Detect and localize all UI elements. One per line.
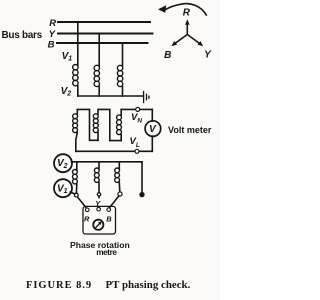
secondary coil 1 loops: [73, 114, 78, 133]
terminal b: [97, 193, 100, 196]
lower winding 2: [98, 162, 100, 169]
wire: V1 to terminal a: [70, 192, 74, 194]
terminal c: [118, 192, 122, 196]
voltmeter V1: [54, 179, 72, 197]
svg-text:Y: Y: [49, 29, 57, 40]
voltmeter V2: [54, 154, 72, 172]
meter face: [93, 220, 103, 230]
node VL terminal: [135, 149, 139, 153]
primary winding 3: [117, 65, 122, 86]
svg-text:Volt meter: Volt meter: [168, 125, 212, 135]
lower winding 1: [76, 162, 78, 170]
meter terminal R: [85, 208, 89, 212]
primary neutral bus wire: [78, 95, 143, 97]
wire: coil3 top to voltmeter: [121, 108, 152, 110]
meter terminal B: [107, 208, 111, 212]
primary winding 1 (V1 PT primary): [73, 65, 78, 86]
phase rotation meter box: [83, 206, 116, 234]
svg-text:FIGURE 8.9: FIGURE 8.9: [26, 280, 92, 291]
secondary hairpin 1: coil leg: [77, 109, 98, 140]
svg-text:Y: Y: [204, 50, 212, 61]
secondary hairpin 2: [98, 109, 121, 140]
node VN terminal: [136, 107, 140, 111]
rotation curved arrow: [166, 4, 207, 15]
svg-text:V1: V1: [62, 51, 73, 63]
wire: Y bus tap to primary coil 2: [98, 34, 100, 67]
meter terminal Y: [97, 207, 101, 211]
svg-text:VL: VL: [130, 136, 140, 149]
bus bar Y: [58, 33, 153, 35]
svg-text:V1: V1: [57, 183, 68, 195]
svg-text:R: R: [183, 8, 191, 19]
terminal d: [140, 192, 144, 196]
terminal a: [74, 193, 78, 197]
primary winding 2: [94, 65, 99, 86]
wire: down to voltmeter: [151, 109, 153, 121]
earth (ground) symbol: [144, 92, 149, 103]
bus bar B: [57, 42, 148, 44]
svg-text:B: B: [164, 50, 171, 61]
wire: B bus tap to primary coil 3: [122, 43, 124, 66]
svg-text:V2: V2: [61, 86, 72, 98]
lower winding 3: [118, 162, 120, 169]
wire: lower bus L2 from V2: [72, 161, 143, 163]
svg-text:VN: VN: [131, 112, 142, 125]
svg-text:V: V: [149, 124, 157, 135]
bus bar R: [58, 21, 150, 23]
svg-text:B: B: [48, 40, 55, 51]
voltmeter U1: [145, 121, 161, 137]
svg-text:B: B: [106, 214, 112, 223]
secondary coil 3: [120, 135, 122, 141]
svg-text:V2: V2: [57, 158, 68, 170]
svg-text:metre: metre: [96, 247, 117, 257]
wire: secondary coil1 bottom to VL line: [76, 133, 78, 152]
wire: voltmeter bottom to VL line: [151, 136, 153, 151]
wire: terminal c to meter B: [110, 196, 119, 208]
wire VL line: [76, 150, 153, 152]
svg-text:R: R: [49, 18, 56, 29]
wire: L2 right drop: [141, 162, 143, 192]
phasor B arrow: [176, 35, 188, 44]
svg-text:R: R: [84, 214, 90, 223]
svg-text:Bus bars: Bus bars: [2, 30, 43, 41]
wire: terminal a to meter R: [77, 197, 86, 208]
svg-text:PT phasing check.: PT phasing check.: [106, 279, 191, 291]
wire: R bus tap to primary coil 1: [77, 22, 79, 65]
secondary coil 2 loops: [93, 114, 98, 133]
phasor R arrow: [186, 23, 188, 35]
phasor Y arrow: [187, 35, 199, 44]
